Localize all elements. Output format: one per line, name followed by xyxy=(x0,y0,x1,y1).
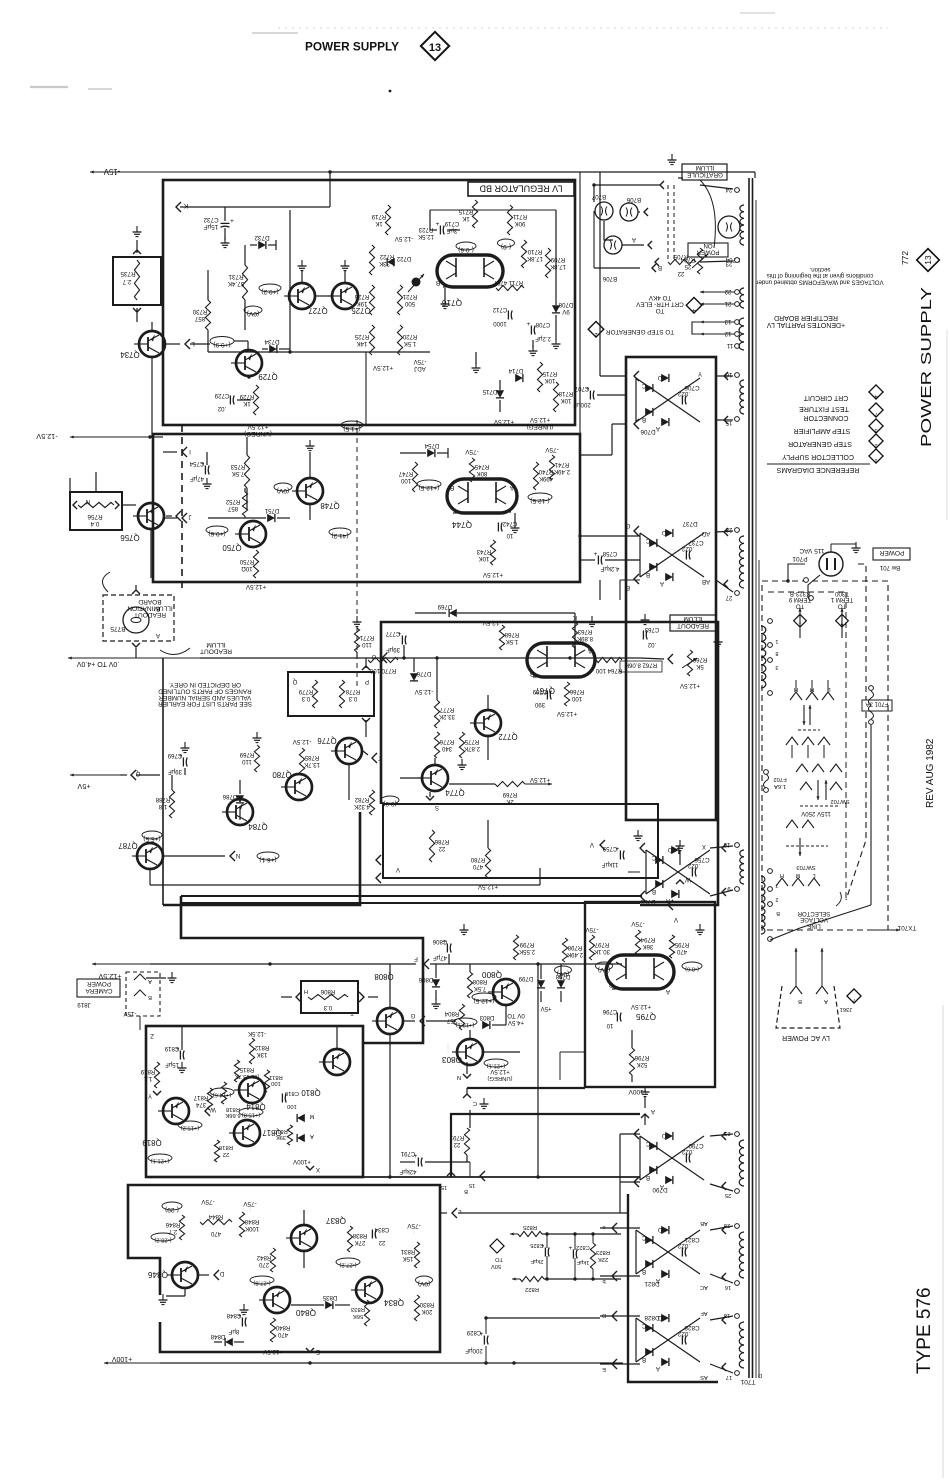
resistor R743 10K xyxy=(490,540,495,565)
svg-text:R709: R709 xyxy=(550,256,565,263)
resistor R715 10K xyxy=(537,362,542,392)
svg-text:ADJ: ADJ xyxy=(414,365,426,372)
resistor R735 2.7 box xyxy=(113,257,161,305)
svg-text:500: 500 xyxy=(404,300,415,307)
resistor R756 0.4 box xyxy=(70,492,122,530)
fuse F701 3A xyxy=(862,700,892,711)
svg-text:C825: C825 xyxy=(530,1242,543,1248)
svg-text:(+0.9): (+0.9) xyxy=(213,341,230,348)
resistor R782 4.32K xyxy=(369,790,374,815)
svg-text:22: 22 xyxy=(453,1141,460,1148)
svg-text:D708: D708 xyxy=(558,301,573,308)
svg-text:+: + xyxy=(569,1245,573,1252)
svg-text:N: N xyxy=(457,1074,461,1080)
diode D803 xyxy=(482,1021,490,1029)
collector supply board outline xyxy=(585,902,715,1087)
connector L with (+0.9) xyxy=(185,339,190,349)
svg-text:R762 8.06K: R762 8.06K xyxy=(625,662,657,669)
pot adjust mark xyxy=(412,278,421,287)
svg-text:R752: R752 xyxy=(225,498,240,505)
svg-text:(41.2): (41.2) xyxy=(331,532,348,539)
svg-text:C708: C708 xyxy=(535,321,550,328)
svg-text:N: N xyxy=(236,852,240,859)
svg-text:(+13.1): (+13.1) xyxy=(456,1022,475,1028)
svg-text:R705: R705 xyxy=(673,253,688,260)
LV regulator lower board outline xyxy=(153,434,580,582)
bus 0V TO +4.0V xyxy=(68,657,200,659)
svg-text:5K: 5K xyxy=(696,663,703,670)
oval (+1.5) xyxy=(341,421,363,429)
svg-text:C758: C758 xyxy=(602,550,617,557)
svg-text:F702: F702 xyxy=(773,776,786,782)
gnd C791 right xyxy=(469,1110,471,1128)
svg-text:C737: C737 xyxy=(688,539,704,546)
svg-text:R719: R719 xyxy=(371,213,386,220)
svg-text:TX701: TX701 xyxy=(897,924,916,931)
gnd W node xyxy=(679,850,681,865)
svg-text:AB: AB xyxy=(700,1220,708,1226)
svg-text:-15V: -15V xyxy=(103,167,120,176)
svg-text:A: A xyxy=(310,1133,314,1139)
transistor Q725 xyxy=(332,283,358,309)
ground under Q716 B xyxy=(444,288,446,300)
diode D708 9V xyxy=(552,305,560,313)
diode D722 xyxy=(387,258,395,266)
transistor Q774 xyxy=(422,765,448,791)
svg-text:7: 7 xyxy=(852,997,855,1003)
svg-text:R842: R842 xyxy=(256,1254,271,1261)
resistor R769b 110 xyxy=(254,745,259,772)
transistor Q756 xyxy=(138,503,164,529)
svg-text:2: 2 xyxy=(775,896,778,902)
resistor R752 857 xyxy=(242,492,247,516)
resistor R788 1.8 xyxy=(169,790,174,818)
svg-text:C756: C756 xyxy=(694,856,710,863)
svg-text:C819: C819 xyxy=(164,1045,179,1052)
coil sec D828 xyxy=(739,1322,744,1330)
svg-text:R819: R819 xyxy=(140,1068,155,1075)
svg-text:K323-B: K323-B xyxy=(790,590,810,597)
cap C777 39uF xyxy=(401,636,403,645)
svg-text:0.4: 0.4 xyxy=(90,520,99,527)
svg-text:R797: R797 xyxy=(594,941,609,948)
connector N (+6.1) xyxy=(230,851,235,861)
wire box F to D790 xyxy=(560,1051,585,1053)
selector arrows upper xyxy=(803,705,805,725)
svg-text:D828: D828 xyxy=(644,1314,660,1321)
transistor Q834 xyxy=(356,1277,382,1303)
wire V bus upper xyxy=(181,895,642,897)
svg-text:+: + xyxy=(230,218,234,225)
svg-text:270: 270 xyxy=(258,1261,269,1268)
svg-text:80K: 80K xyxy=(477,470,488,477)
svg-text:470: 470 xyxy=(277,1331,288,1338)
page number 772 vertical xyxy=(900,251,910,265)
svg-text:Q734: Q734 xyxy=(120,350,140,359)
svg-text:1.5K: 1.5K xyxy=(404,340,417,347)
svg-text:R782: R782 xyxy=(354,796,369,803)
svg-text:Q750: Q750 xyxy=(222,543,242,552)
svg-text:39µF: 39µF xyxy=(168,768,182,775)
svg-text:17.8K: 17.8K xyxy=(550,263,566,270)
svg-text:R817: R817 xyxy=(193,1094,208,1101)
svg-text:+12.5V: +12.5V xyxy=(679,682,700,689)
svg-text:B706: B706 xyxy=(626,196,641,203)
svg-text:R753: R753 xyxy=(230,463,245,470)
svg-text:36K: 36K xyxy=(643,943,654,950)
label TO TERM9 K323-B xyxy=(788,590,811,609)
wire Q725 collector to grounds xyxy=(301,270,303,282)
svg-text:E: E xyxy=(316,1348,320,1355)
svg-text:390: 390 xyxy=(534,701,545,708)
resistor R838 27K xyxy=(347,1226,352,1252)
svg-text:10: 10 xyxy=(506,532,513,539)
svg-text:c: c xyxy=(458,1208,461,1215)
svg-text:2.49K: 2.49K xyxy=(567,951,583,958)
svg-text:R730: R730 xyxy=(192,308,207,315)
svg-text:Q808: Q808 xyxy=(374,972,394,981)
svg-text:-75V: -75V xyxy=(631,920,645,927)
cap C829 200uF xyxy=(483,1336,485,1345)
wire board step path xyxy=(181,896,423,1043)
svg-text:C: C xyxy=(641,1322,646,1329)
lamp B707 xyxy=(595,202,613,220)
svg-text:2.49K: 2.49K xyxy=(554,468,570,475)
cap C769 390 xyxy=(546,691,548,700)
svg-text:+12.5V: +12.5V xyxy=(489,1068,509,1075)
svg-text:(+0.2): (+0.2) xyxy=(261,288,278,295)
cap C806 47uF xyxy=(446,944,448,953)
diamond 13 small right xyxy=(917,249,940,272)
svg-text:R804: R804 xyxy=(444,1010,459,1017)
svg-text:S: S xyxy=(435,804,439,811)
lamp B704 xyxy=(718,216,740,238)
svg-text:10K: 10K xyxy=(479,555,490,562)
svg-text:340: 340 xyxy=(441,745,452,752)
connector G xyxy=(420,1016,425,1026)
svg-text:Q814: Q814 xyxy=(246,1102,266,1111)
gnd mid box A xyxy=(475,352,477,364)
svg-text:R831: R831 xyxy=(400,1248,415,1255)
svg-text:A: A xyxy=(509,484,514,491)
scan edge line xyxy=(942,1005,944,1478)
cap C763 .02 xyxy=(642,631,644,640)
svg-text:(+5.5): (+5.5) xyxy=(143,835,160,842)
plug P701 xyxy=(819,552,843,576)
connector J819 camera power xyxy=(77,979,120,997)
resistor R771 110 xyxy=(354,628,359,652)
wire -15V top bus xyxy=(90,171,330,173)
svg-text:.02: .02 xyxy=(647,641,656,648)
svg-text:42kµF: 42kµF xyxy=(399,1168,416,1175)
svg-text:R729: R729 xyxy=(239,393,254,400)
wire bridgeD706 left links xyxy=(600,375,626,377)
svg-text:R846: R846 xyxy=(165,1221,180,1228)
caps C822 C825 xyxy=(544,1248,546,1257)
svg-text:22: 22 xyxy=(438,845,445,852)
svg-text:R741: R741 xyxy=(554,461,569,468)
svg-text:7: 7 xyxy=(775,882,778,888)
ground C708 xyxy=(532,340,534,348)
resistor R791 22 xyxy=(464,1128,469,1155)
graticule illum label box xyxy=(682,164,727,180)
wire D790 to bus xyxy=(619,1134,621,1177)
connector J756 xyxy=(176,511,181,521)
svg-text:2: 2 xyxy=(874,442,877,448)
svg-text:+12.5V: +12.5V xyxy=(556,710,577,717)
svg-text:POWER SUPPLY: POWER SUPPLY xyxy=(305,40,399,54)
svg-text:R794: R794 xyxy=(640,936,655,943)
svg-text:D732: D732 xyxy=(254,234,270,241)
svg-text:357: 357 xyxy=(446,1017,457,1024)
svg-text:7.5K: 7.5K xyxy=(474,985,487,992)
coil sec D821 xyxy=(739,1232,744,1240)
svg-text:Q: Q xyxy=(292,678,297,685)
diode D848 xyxy=(225,1338,233,1346)
wire right side of box A xyxy=(430,209,556,211)
svg-text:D803: D803 xyxy=(479,1014,494,1021)
svg-text:AS: AS xyxy=(700,1374,708,1380)
rev date vertical xyxy=(925,738,936,808)
svg-text:R777: R777 xyxy=(439,706,454,713)
svg-text:0.3: 0.3 xyxy=(348,695,357,702)
svg-text:Q780: Q780 xyxy=(272,770,292,779)
transistor Q814 xyxy=(239,1077,265,1103)
inner box V section xyxy=(383,804,658,878)
pot R704 25 xyxy=(697,248,702,274)
resistor R823 22K xyxy=(590,1243,595,1269)
diode D799 D798 xyxy=(537,980,545,988)
primary coil upper xyxy=(761,626,766,634)
boxed label R762 8.06K xyxy=(620,661,662,672)
svg-text:R795: R795 xyxy=(674,941,689,948)
svg-text:T300: T300 xyxy=(834,590,849,597)
svg-text:1: 1 xyxy=(874,457,877,463)
svg-text:R775: R775 xyxy=(464,738,479,745)
coil sec 10-9 xyxy=(740,850,744,857)
connector K xyxy=(176,202,181,212)
capacitor C754 47uF xyxy=(204,466,206,475)
svg-text:B: B xyxy=(652,888,656,895)
svg-text:8.89K: 8.89K xyxy=(577,635,593,642)
resistor R799 2.55K xyxy=(513,935,518,960)
cap C719 3uF xyxy=(439,226,441,235)
wire left edge mid xyxy=(162,658,164,905)
label box POWER Bw701 xyxy=(873,548,910,560)
resistor R711 90K xyxy=(507,205,512,235)
svg-text:15: 15 xyxy=(469,1182,475,1188)
dual transistor Q744 xyxy=(447,479,517,513)
svg-text:C806: C806 xyxy=(432,938,447,945)
coil sec 28-27 xyxy=(739,536,744,543)
svg-text:TEST FIXTURE: TEST FIXTURE xyxy=(799,405,849,412)
svg-text:C769: C769 xyxy=(532,688,547,695)
coil sec 16-15 xyxy=(740,380,744,387)
resistor R766 100 xyxy=(564,682,569,706)
svg-text:3: 3 xyxy=(874,427,877,433)
svg-text:C763: C763 xyxy=(644,626,659,633)
svg-text:B: B xyxy=(646,1174,650,1181)
svg-text:B: B xyxy=(642,416,646,423)
svg-text:857: 857 xyxy=(227,505,238,512)
svg-text:15µF: 15µF xyxy=(204,223,219,230)
svg-text:STEP AMPLIFIER: STEP AMPLIFIER xyxy=(794,427,851,434)
oval (0V) Q748 xyxy=(274,483,292,491)
svg-text:D: D xyxy=(219,1270,224,1277)
svg-text:100: 100 xyxy=(270,1080,281,1086)
resistor box R778 R779 xyxy=(288,672,374,716)
resistor R740 499K xyxy=(533,462,538,490)
readout illum arrow label xyxy=(200,641,232,655)
svg-text:15: 15 xyxy=(441,1184,447,1190)
label TO TERM1 T300 xyxy=(830,590,853,609)
svg-text:C: C xyxy=(645,537,650,544)
capacitor C758 4.2kuF xyxy=(597,556,599,565)
svg-text:T: T xyxy=(350,1010,354,1016)
connector I xyxy=(182,447,187,457)
oval -29 xyxy=(162,1202,182,1210)
resistor R750 100 xyxy=(253,550,258,578)
resistor R816 22 xyxy=(214,1140,219,1162)
switch contacts H M L lower xyxy=(776,878,788,886)
resistor R777 33.2K xyxy=(434,700,439,728)
transistor Q803 xyxy=(457,1039,483,1065)
resistor R808 7.5K xyxy=(467,972,472,998)
resistor R797 30.1K xyxy=(589,935,594,960)
svg-text:(+15.2): (+15.2) xyxy=(181,1125,200,1131)
svg-text:N: N xyxy=(86,498,90,505)
svg-text:(-27.2): (-27.2) xyxy=(339,1262,356,1268)
svg-text:R715: R715 xyxy=(458,208,473,215)
note DENOTES PARTIAL LV RECTIFIER xyxy=(767,314,846,328)
svg-text:Q744: Q744 xyxy=(452,520,472,529)
svg-text:B: B xyxy=(148,994,152,1000)
rectifier D790 bridge xyxy=(640,1136,704,1180)
svg-text:27K: 27K xyxy=(355,1239,366,1246)
svg-text:(0V): (0V) xyxy=(598,966,610,973)
svg-text:AC: AC xyxy=(700,1284,708,1290)
svg-text:+5V: +5V xyxy=(540,1005,552,1012)
connector N C stack xyxy=(463,1074,471,1078)
svg-text:22: 22 xyxy=(677,270,684,277)
vertical dashed separator xyxy=(356,420,358,688)
resistor R764 100 xyxy=(596,657,622,662)
svg-text:R776: R776 xyxy=(439,738,454,745)
svg-text:R840: R840 xyxy=(275,1324,290,1331)
svg-text:2.55K: 2.55K xyxy=(519,948,535,955)
svg-text:C810: C810 xyxy=(284,1090,299,1096)
svg-text:C829: C829 xyxy=(466,1329,481,1336)
svg-text:D799: D799 xyxy=(518,975,533,982)
wire graticule top xyxy=(594,184,660,186)
rectifier D756 bridge xyxy=(646,850,710,894)
svg-text:22: 22 xyxy=(378,1239,385,1246)
transistor Q772 xyxy=(475,710,501,736)
svg-text:AF: AF xyxy=(700,1310,708,1316)
feedback board outline xyxy=(146,1026,363,1177)
svg-text:R786: R786 xyxy=(434,838,449,845)
svg-text:SELECTOR: SELECTOR xyxy=(797,910,830,917)
svg-text:(0V): (0V) xyxy=(557,970,569,977)
svg-text:R768: R768 xyxy=(504,631,519,638)
svg-text:Q748: Q748 xyxy=(320,501,340,510)
svg-text:R822: R822 xyxy=(525,1286,539,1292)
svg-text:(+12.5): (+12.5) xyxy=(474,997,495,1004)
svg-text:-75V: -75V xyxy=(545,446,559,453)
svg-text:A: A xyxy=(148,978,152,984)
connector S xyxy=(426,796,434,800)
svg-text:37.4K: 37.4K xyxy=(227,280,244,287)
scan smudges xyxy=(30,86,68,88)
svg-text:C706: C706 xyxy=(684,384,700,391)
resistor R717 1K xyxy=(472,200,477,228)
resistor R846 2.7 xyxy=(179,1215,184,1240)
svg-text:Q840: Q840 xyxy=(296,1308,316,1317)
svg-text:(-0.6): (-0.6) xyxy=(458,246,474,253)
svg-text:OR DEPICTED IN GREY.: OR DEPICTED IN GREY. xyxy=(169,681,241,688)
svg-text:24: 24 xyxy=(725,186,732,193)
svg-text:Q795: Q795 xyxy=(636,1012,656,1021)
svg-text:13K: 13K xyxy=(257,1051,268,1058)
svg-text:1: 1 xyxy=(775,638,778,644)
svg-text:B: B xyxy=(449,484,454,491)
svg-text:39K: 39K xyxy=(276,1134,286,1140)
svg-text:+: + xyxy=(436,221,440,228)
resistor R709 17.8K xyxy=(545,248,550,278)
resistor R840 470 xyxy=(270,1318,275,1342)
svg-text:J819: J819 xyxy=(77,1001,91,1008)
oval (41.2) xyxy=(329,528,351,536)
svg-text:B706: B706 xyxy=(602,275,617,282)
resistor R730 857 xyxy=(205,300,210,330)
svg-text:-15V: -15V xyxy=(123,1010,137,1017)
svg-text:D: D xyxy=(758,1372,762,1378)
oval (+12.5) xyxy=(417,480,441,488)
svg-text:D: D xyxy=(661,529,666,536)
resistor R848 100K xyxy=(239,1212,244,1237)
svg-text:56K: 56K xyxy=(353,1313,364,1319)
wire right bottom links xyxy=(469,1162,471,1177)
svg-text:+: + xyxy=(594,551,598,558)
wire mid bottom verticals xyxy=(537,964,539,1177)
cap C819 15uF xyxy=(179,1051,181,1060)
svg-text:200µF: 200µF xyxy=(573,401,591,408)
svg-text:(-9): (-9) xyxy=(501,243,511,250)
connector U bus xyxy=(382,653,387,663)
svg-text:+12.5V: +12.5V xyxy=(247,423,269,430)
svg-text:R726: R726 xyxy=(354,293,369,300)
svg-text:R825: R825 xyxy=(522,1224,537,1230)
svg-text:11kµF: 11kµF xyxy=(601,861,618,868)
label (-9) xyxy=(498,239,515,247)
label box LV REGULATOR BD xyxy=(468,182,574,196)
svg-text:R785: R785 xyxy=(304,754,319,761)
svg-text:Q834: Q834 xyxy=(384,1298,404,1307)
transistor Q727 xyxy=(289,283,315,309)
svg-text:C: C xyxy=(641,382,646,389)
svg-text:-75V: -75V xyxy=(243,1200,257,1207)
svg-text:REV AUG 1982: REV AUG 1982 xyxy=(925,738,936,808)
svg-text:1kµF: 1kµF xyxy=(576,1259,589,1265)
svg-text:R798: R798 xyxy=(567,944,582,951)
svg-text:G: G xyxy=(625,522,630,529)
svg-text:D: D xyxy=(657,1226,662,1233)
svg-text:H: H xyxy=(304,988,308,994)
vertical title POWER SUPPLY xyxy=(919,287,935,447)
svg-text:R779: R779 xyxy=(298,688,313,695)
svg-text:T701: T701 xyxy=(740,1378,755,1385)
svg-text:R810: R810 xyxy=(274,1128,287,1134)
